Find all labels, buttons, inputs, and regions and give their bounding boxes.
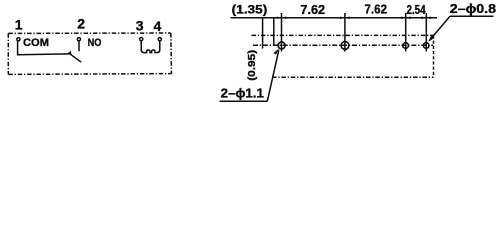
label 2-phi1.1 underline: [220, 100, 268, 102]
svg-text:2–ϕ0.8: 2–ϕ0.8: [450, 2, 496, 16]
svg-text:7.62: 7.62: [300, 2, 325, 17]
svg-text:2–ϕ1.1: 2–ϕ1.1: [221, 86, 264, 100]
hole centerline (dash-dot): [253, 44, 433, 46]
svg-text:4: 4: [154, 18, 162, 34]
hole 4 (pin4, dia 0.8): [423, 43, 429, 49]
svg-text:2.54: 2.54: [407, 3, 426, 17]
svg-text:2: 2: [77, 16, 85, 32]
switch body outline (dash-dot rectangle): [8, 33, 171, 74]
blade contact nub: [66, 51, 71, 54]
COM terminal circle pin1: [17, 38, 20, 41]
extension line hole4: [425, 13, 427, 52]
dimension line (top): [231, 17, 438, 19]
leader arrowhead at hole 1: [273, 48, 279, 54]
svg-text:NO: NO: [88, 37, 102, 49]
NO terminal circle pin2: [77, 38, 80, 41]
hole 3 (pin3, dia 0.8): [403, 43, 409, 49]
hole 1 (pin1, dia 1.1): [278, 42, 285, 49]
footprint left edge: [273, 18, 275, 46]
extension line hole1: [281, 13, 283, 52]
svg-text:(0.95): (0.95): [246, 50, 258, 81]
leader to hole 4: [429, 16, 450, 40]
svg-text:7.62: 7.62: [365, 2, 388, 17]
coil / resistive element between pins 3 and 4: [141, 40, 160, 52]
coil terminal circle pin4: [158, 38, 161, 41]
leader arrowhead at hole 4: [428, 36, 434, 42]
dim arrowheads: [277, 17, 431, 20]
coil terminal circle pin3: [140, 38, 143, 41]
svg-text:(1.35): (1.35): [232, 3, 268, 17]
leader to hole 1: [267, 50, 279, 101]
extension line hole3: [405, 13, 407, 52]
label 2-phi0.8 underline: [450, 15, 494, 17]
footprint right edge: [433, 35, 435, 77]
footprint top edge (dash-dot, with (0.95) extension to the left): [252, 34, 434, 36]
extension line hole2: [344, 13, 346, 52]
svg-text:COM: COM: [23, 37, 49, 49]
svg-text:3: 3: [136, 18, 144, 34]
footprint bottom edge: [272, 76, 434, 78]
svg-text:1: 1: [15, 16, 23, 32]
switch blade (open): [70, 54, 81, 62]
(1.35) left extension + (0.95) dimension line: [262, 18, 264, 49]
switch common wire: [18, 40, 70, 55]
NO contact stub: [78, 41, 80, 51]
hole 2 (pin2, dia 1.1): [341, 42, 349, 50]
